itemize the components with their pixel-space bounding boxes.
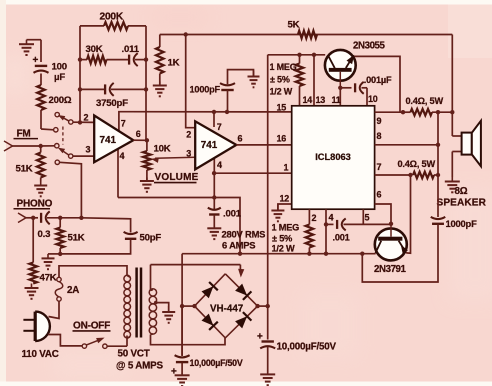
label 10000uF/50V right <box>277 341 337 352</box>
svg-text:PHONO: PHONO <box>17 199 53 210</box>
ground 47K <box>25 284 39 299</box>
label 1 MEG top <box>270 62 297 97</box>
wire 5K feedback column <box>451 35 453 113</box>
pin label 12 <box>280 193 290 203</box>
ground FM <box>34 182 47 197</box>
plug P1 110VAC <box>23 312 49 341</box>
svg-text:.001: .001 <box>223 209 242 220</box>
capacitor C .001 (drive) <box>337 218 346 230</box>
wire 200K row <box>80 25 104 27</box>
label 8ohm <box>455 186 468 197</box>
diode D4 (B-R) <box>235 312 251 328</box>
wire output column <box>437 112 439 175</box>
wire <box>146 170 148 180</box>
svg-text:50pF: 50pF <box>140 233 162 244</box>
svg-text:.001µF: .001µF <box>364 75 392 85</box>
svg-text:+: + <box>33 55 39 66</box>
svg-text:± 5%: ± 5% <box>272 233 292 243</box>
wire <box>41 110 54 130</box>
node <box>297 53 316 57</box>
ground cap1 <box>175 374 190 386</box>
svg-text:1/2 W: 1/2 W <box>272 244 296 254</box>
svg-text:1 MEG: 1 MEG <box>272 222 300 232</box>
wire -V left column <box>181 254 183 356</box>
resistor R 1K <box>156 35 164 85</box>
svg-text:2: 2 <box>312 213 317 223</box>
IC U3 ICL8063 <box>292 106 375 209</box>
svg-text:15: 15 <box>277 102 287 112</box>
wire <box>146 140 148 151</box>
wire 50pF top <box>81 218 130 233</box>
diode D2 (T-R) <box>235 284 251 300</box>
wire pin13 column <box>313 55 315 106</box>
label 10000uF/50V left <box>190 358 243 368</box>
svg-text:4: 4 <box>329 212 334 222</box>
wire 50pF bottom <box>60 240 130 254</box>
svg-text:µF: µF <box>54 72 65 83</box>
label VH-447 <box>210 304 244 315</box>
label 51K <box>16 164 33 175</box>
capacitor C .011 <box>129 53 138 66</box>
resistor R 200K <box>104 22 128 30</box>
PHONO label <box>14 199 53 210</box>
svg-text:10,000µF/50V: 10,000µF/50V <box>277 341 337 352</box>
switch S1a contact up <box>55 112 59 116</box>
resistor R 5K <box>298 31 317 39</box>
label 2N3055 <box>353 40 386 51</box>
label 1000pF <box>190 84 221 94</box>
ground speaker <box>445 177 460 192</box>
wire <box>111 87 148 91</box>
label 0.4 5W bottom <box>398 159 436 169</box>
label 30K <box>86 44 103 55</box>
svg-text:3: 3 <box>186 148 191 158</box>
svg-text:SPEAKER: SPEAKER <box>437 198 487 209</box>
svg-text:1000pF: 1000pF <box>190 84 221 94</box>
FM input label <box>14 129 39 140</box>
pin label 8 <box>377 131 382 141</box>
wire emitter Q1 <box>352 56 400 112</box>
wire <box>362 225 438 283</box>
wire pin11 column <box>339 88 341 106</box>
wire secondary top <box>151 264 241 266</box>
pin label 6 <box>136 129 141 139</box>
switch S1a pole <box>69 120 73 124</box>
pin label 2 <box>84 113 89 123</box>
svg-text:6: 6 <box>136 129 141 139</box>
label 47K <box>40 273 57 284</box>
op-amp U2 741 <box>195 121 236 169</box>
wire pin6 <box>375 204 391 223</box>
svg-text:± 5%: ± 5% <box>270 75 290 85</box>
ground 51K phono <box>42 254 55 269</box>
label 6 AMPS <box>222 239 255 250</box>
switch S1b pole <box>69 154 73 158</box>
svg-text:5: 5 <box>365 212 370 222</box>
node base Q2 <box>389 222 393 226</box>
transistor Q2 2N3791 <box>375 223 408 260</box>
label @ 5 AMPS <box>116 360 163 371</box>
capacitor C 1000pF <box>220 83 235 90</box>
svg-text:7: 7 <box>217 122 222 132</box>
label 50 VCT <box>118 348 150 359</box>
capacitor C .001 (op-amp) <box>208 198 221 228</box>
wire <box>73 155 95 157</box>
bridge diamond <box>195 274 258 338</box>
wire pin7 stub U2 <box>212 110 216 127</box>
svg-text:0.3: 0.3 <box>38 229 51 240</box>
svg-text:VOLUME: VOLUME <box>155 172 199 183</box>
svg-text:10: 10 <box>368 94 378 104</box>
node <box>436 173 440 177</box>
pin label 7 <box>121 118 126 128</box>
speaker SPK 8ohm <box>452 121 481 166</box>
label .001 <box>223 209 242 220</box>
svg-text:5K: 5K <box>288 20 300 31</box>
pin label 6 <box>377 189 382 199</box>
wire U2 out pin16 <box>236 144 291 146</box>
svg-text:11: 11 <box>332 95 341 105</box>
wire AC arrow <box>238 265 244 278</box>
pin label 3 <box>186 148 191 158</box>
svg-text:50 VCT: 50 VCT <box>118 348 150 359</box>
svg-text:ON-OFF: ON-OFF <box>73 320 110 331</box>
node <box>212 195 216 199</box>
wire <box>344 223 392 225</box>
wire <box>59 162 81 218</box>
pin label 4 <box>217 160 222 170</box>
resistor R 47K <box>29 218 37 284</box>
svg-text:200Ω: 200Ω <box>49 95 72 106</box>
resistor R 0.4ohm bottom <box>413 172 438 178</box>
wire <box>59 266 127 278</box>
transformer T1 primary <box>124 275 131 338</box>
resistor R 51K (phono) <box>56 218 64 254</box>
svg-text:12: 12 <box>280 193 290 203</box>
wire <box>362 87 368 89</box>
node phono <box>31 216 35 220</box>
wire <box>40 40 42 62</box>
svg-text:1K: 1K <box>168 58 180 69</box>
capacitor C 10000uF pos <box>257 306 275 372</box>
wire pin4 stub U1 <box>117 148 119 198</box>
wire pin1 rail <box>212 171 292 175</box>
label 5K <box>288 20 300 31</box>
wire <box>324 224 328 256</box>
pin label 6 <box>238 133 243 143</box>
svg-text:8Ω: 8Ω <box>455 186 468 197</box>
transistor Q1 2N3055 <box>325 50 356 88</box>
svg-text:2A: 2A <box>67 285 79 296</box>
wire <box>48 253 60 255</box>
wire <box>107 59 129 61</box>
node <box>184 32 188 36</box>
pin label 2 <box>186 129 191 139</box>
svg-text:.011: .011 <box>122 44 140 55</box>
label 0.4 5W top <box>406 96 444 106</box>
svg-text:51K: 51K <box>68 233 85 244</box>
capacitor C 0.3 <box>41 211 50 224</box>
ground center tap <box>162 306 175 323</box>
capacitor C 10000uF neg <box>171 306 190 377</box>
svg-text:.001: .001 <box>333 232 350 242</box>
wire <box>47 216 84 220</box>
svg-text:2N3055: 2N3055 <box>353 40 386 51</box>
label 110 VAC <box>22 349 59 360</box>
wire pin9 <box>375 110 406 114</box>
svg-text:ICL8063: ICL8063 <box>315 152 351 162</box>
svg-text:0.4Ω, 5W: 0.4Ω, 5W <box>398 159 436 169</box>
pin label 1 <box>284 162 289 172</box>
op-amp U1 741 <box>94 116 133 163</box>
svg-text:13: 13 <box>316 95 326 105</box>
wire pin8 <box>375 143 441 147</box>
label 10K <box>154 144 171 155</box>
node <box>78 57 82 61</box>
node <box>360 252 364 256</box>
wire top rail <box>160 34 453 36</box>
wire <box>128 25 146 27</box>
svg-text:200K: 200K <box>100 11 124 22</box>
label 200ohm <box>49 95 72 106</box>
transformer T1 secondary <box>149 265 156 335</box>
wire <box>340 87 351 89</box>
pin label 7 <box>217 122 222 132</box>
svg-text:2N3791: 2N3791 <box>374 264 407 275</box>
svg-text:2: 2 <box>186 129 191 139</box>
pin label 7 <box>377 162 382 172</box>
pin label 15 <box>277 102 287 112</box>
svg-text:4: 4 <box>217 160 222 170</box>
wire bridge right <box>255 304 269 308</box>
svg-text:3: 3 <box>86 145 91 155</box>
label 3750pF <box>96 98 128 109</box>
svg-text:+: + <box>257 332 263 343</box>
svg-text:14: 14 <box>303 95 313 105</box>
wire pin5 <box>362 209 364 224</box>
svg-text:0.4Ω, 5W: 0.4Ω, 5W <box>406 96 444 106</box>
switch S1b arm <box>58 148 69 156</box>
label 1 MEG bottom <box>272 222 300 253</box>
label SPEAKER <box>437 198 487 209</box>
ground volume <box>140 178 154 192</box>
svg-text:741: 741 <box>201 140 218 151</box>
svg-text:7: 7 <box>377 162 382 172</box>
capacitor C 100uF <box>33 55 49 73</box>
node base Q1 <box>338 86 342 90</box>
svg-text:280V RMS: 280V RMS <box>222 229 266 240</box>
wire node pin2 junction <box>73 120 94 124</box>
label 200K <box>100 11 124 22</box>
pin label 16 <box>277 133 287 143</box>
fuse F1 2A <box>55 277 63 301</box>
wire <box>107 336 127 347</box>
wire <box>228 70 254 85</box>
switch S2 on-off <box>82 338 107 349</box>
wire secondary bottom <box>151 335 226 345</box>
ground .001 <box>207 227 221 240</box>
wire left column <box>79 26 81 123</box>
svg-text:3750pF: 3750pF <box>96 98 128 109</box>
wire <box>135 57 148 61</box>
FM input jack <box>4 141 38 151</box>
transformer T1 core <box>137 268 141 338</box>
resistor R 1MEG bottom <box>306 209 314 256</box>
ground cap2 <box>260 372 275 385</box>
svg-text:4: 4 <box>120 151 125 161</box>
wire <box>451 152 453 178</box>
wire +V column <box>267 55 269 306</box>
wire U1 out <box>133 138 149 142</box>
wire emitter Q2 <box>406 175 410 253</box>
diode D1 (L-T) <box>202 282 218 298</box>
node <box>436 110 455 114</box>
label VOLUME <box>154 172 199 183</box>
label ON-OFF <box>73 320 111 331</box>
svg-text:9: 9 <box>377 116 382 126</box>
label 1K <box>168 58 180 69</box>
capacitor C 50pF <box>124 232 138 239</box>
potentiometer R 10K volume <box>143 151 151 170</box>
ground pin12 <box>271 205 284 222</box>
wire pin10 column <box>366 88 368 106</box>
PHONO jack <box>18 213 38 223</box>
ground top-left <box>19 40 34 55</box>
wire right column <box>145 26 147 140</box>
node <box>58 252 62 256</box>
pin label 13 <box>316 95 326 105</box>
wire top +V rail <box>268 54 326 56</box>
pin label 4b <box>329 212 334 222</box>
label 2N3791 <box>374 264 407 275</box>
svg-text:100: 100 <box>52 62 67 73</box>
switch gang dashed link <box>62 127 64 145</box>
wire pin12 <box>278 204 292 210</box>
wire bridge left <box>180 304 197 308</box>
resistor R 0.4ohm top <box>403 109 452 115</box>
svg-text:47K: 47K <box>40 273 57 284</box>
svg-text:16: 16 <box>277 133 287 143</box>
svg-text:1/2 W: 1/2 W <box>270 87 293 97</box>
pin label 10 <box>368 94 378 104</box>
label 280V RMS <box>222 229 266 240</box>
ground 1000pF <box>248 71 260 88</box>
wire <box>49 301 60 319</box>
wire 3750 row <box>80 88 104 90</box>
pin label 2b <box>312 213 317 223</box>
switch S1a contact down <box>54 128 58 132</box>
svg-text:110 VAC: 110 VAC <box>22 349 59 360</box>
capacitor C 3750pF <box>105 83 114 96</box>
pin label 3 <box>86 145 91 155</box>
node FM <box>38 144 55 148</box>
resistor 200 ohm <box>37 85 45 110</box>
svg-text:2: 2 <box>84 113 89 123</box>
wire <box>225 90 229 114</box>
svg-text:1: 1 <box>284 162 289 172</box>
resistor R 1MEG top <box>296 55 304 106</box>
label .001uF <box>364 75 392 85</box>
ground 1K <box>153 82 167 97</box>
svg-text:1 MEG: 1 MEG <box>270 62 297 72</box>
svg-text:741: 741 <box>100 135 117 146</box>
wire pin4 rail <box>118 198 240 254</box>
pin label 14 <box>303 95 313 105</box>
svg-text:8: 8 <box>377 131 382 141</box>
label .001 drive <box>333 232 350 242</box>
wire pin4 stub U2 <box>213 158 215 198</box>
svg-text:@ 5 AMPS: @ 5 AMPS <box>116 360 163 371</box>
node <box>78 87 82 91</box>
pin label 11 <box>332 95 341 105</box>
svg-text:30K: 30K <box>86 44 103 55</box>
wire <box>48 335 83 346</box>
wire U2 pin2 column <box>186 35 196 128</box>
wire -V rail <box>182 253 376 255</box>
svg-text:7: 7 <box>121 118 126 128</box>
diode D3 (L-B) <box>202 314 218 330</box>
wire pin4 stub <box>324 209 328 226</box>
switch S1b contact up <box>55 144 59 148</box>
wire <box>80 59 87 61</box>
label 1000pF out <box>446 218 478 229</box>
svg-text:10K: 10K <box>154 144 171 155</box>
wire <box>27 39 42 41</box>
node <box>238 252 242 256</box>
switch S1b contact down <box>55 160 59 164</box>
svg-text:VH-447: VH-447 <box>210 304 244 315</box>
pin label 9 <box>377 116 382 126</box>
label 100uF <box>52 62 67 84</box>
svg-text:1000pF: 1000pF <box>446 218 478 229</box>
pin label 4 <box>120 151 125 161</box>
wire pin7 rail <box>375 173 413 177</box>
svg-text:6: 6 <box>377 189 382 199</box>
capacitor C 1000pF out <box>431 217 446 224</box>
capacitor C .001uF <box>355 82 364 94</box>
pin label 5b <box>365 212 370 222</box>
label 0.3 <box>38 229 51 240</box>
svg-text:6: 6 <box>238 133 243 143</box>
switch S1a arm <box>58 115 69 121</box>
pot wiper arrow <box>151 157 195 163</box>
svg-text:10,000µF/50V: 10,000µF/50V <box>190 358 243 368</box>
svg-text:51K: 51K <box>16 164 33 175</box>
wire <box>326 223 334 225</box>
wire <box>437 175 439 217</box>
label .011 <box>122 44 140 55</box>
wire <box>40 74 42 86</box>
wire <box>451 112 453 136</box>
label 51K phono <box>68 233 85 244</box>
svg-text:6 AMPS: 6 AMPS <box>222 239 255 250</box>
resistor R 30K <box>87 56 107 64</box>
resistor 51K (FM) <box>37 146 45 182</box>
wire pin7 stub U1 <box>119 112 292 132</box>
wire center tap <box>154 301 169 311</box>
label 50pF <box>140 233 162 244</box>
label 2A <box>67 285 79 296</box>
